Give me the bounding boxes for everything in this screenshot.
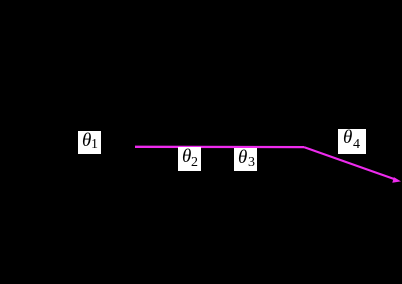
label box theta_2 — [178, 147, 201, 171]
theta_3 text — [238, 148, 247, 167]
theta_2 text — [182, 147, 191, 166]
label box theta_4 — [338, 129, 366, 154]
arrowhead — [392, 177, 401, 183]
theta_4 text — [343, 128, 352, 147]
wire: refracted ray segment — [304, 147, 396, 179]
theta_1 text — [82, 131, 91, 150]
label box theta_1 — [78, 131, 101, 154]
label box theta_3 — [234, 148, 257, 171]
wire: horizontal ray segment — [135, 146, 304, 149]
